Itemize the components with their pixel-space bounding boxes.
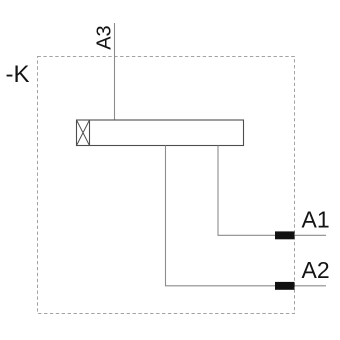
svg-text:A1: A1 [302,207,330,233]
svg-text:A3: A3 [94,25,116,49]
wire stub A2 [295,285,327,287]
relay coil K body [77,120,244,146]
svg-text:-K: -K [6,61,30,88]
wire coil to terminal A2 [166,146,276,286]
terminal A1 [275,231,295,239]
coil drive X-box diagonal 1 [77,120,90,146]
wire coil to terminal A1 [218,146,275,236]
coil drive X-box diagonal 2 [77,120,90,146]
wire A3 vertical [114,23,116,120]
svg-text:A2: A2 [302,257,330,283]
device boundary dashed enclosure [38,57,295,314]
wire stub A1 [295,234,327,236]
coil drive X-box divider [89,120,91,146]
terminal A2 [275,282,295,290]
